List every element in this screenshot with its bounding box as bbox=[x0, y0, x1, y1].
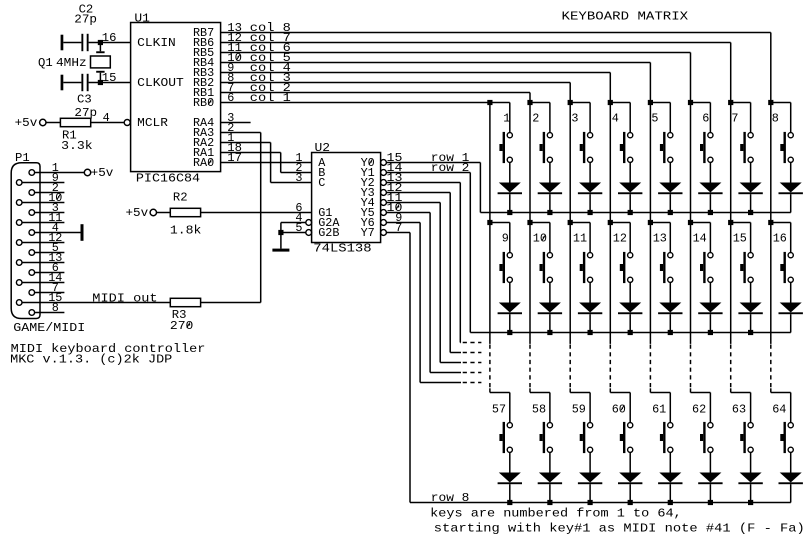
wire bbox=[201, 212, 312, 214]
net row 2 label bbox=[431, 161, 470, 175]
switch S61 key 61 bbox=[660, 422, 673, 453]
wire bbox=[629, 194, 631, 212]
wire bbox=[530, 102, 550, 104]
junction bbox=[507, 500, 512, 505]
wire bbox=[750, 314, 752, 332]
diode D63 bbox=[738, 473, 762, 485]
wire bbox=[691, 102, 711, 104]
svg-text:5: 5 bbox=[651, 112, 658, 126]
switch S63 key 63 bbox=[740, 422, 753, 453]
junction bbox=[728, 100, 733, 105]
wire bbox=[629, 452, 631, 472]
wire bbox=[589, 223, 591, 253]
svg-text:C: C bbox=[318, 176, 325, 190]
wire RA3 to MIDI bbox=[221, 133, 261, 303]
+5v terminal bbox=[126, 206, 157, 220]
wire bbox=[63, 42, 81, 44]
title KEYBOARD MATRIX bbox=[562, 10, 689, 24]
wire bbox=[570, 102, 590, 104]
junction bbox=[628, 210, 633, 215]
wire bbox=[89, 82, 131, 84]
svg-text:11: 11 bbox=[573, 232, 587, 246]
svg-text:58: 58 bbox=[532, 402, 546, 416]
svg-text:U2: U2 bbox=[315, 141, 331, 155]
wire bbox=[731, 392, 751, 394]
svg-text:MIDI out: MIDI out bbox=[92, 291, 157, 305]
wire bbox=[490, 102, 510, 104]
key 10 label bbox=[533, 232, 547, 246]
switch S62 key 62 bbox=[700, 422, 713, 453]
net row 4 wire bbox=[386, 193, 481, 353]
wire bbox=[509, 393, 511, 423]
wire bbox=[709, 223, 711, 253]
switch S4 key 4 bbox=[620, 132, 633, 163]
wire bbox=[629, 223, 631, 253]
key 64 label bbox=[772, 402, 786, 416]
wire bbox=[589, 194, 591, 212]
wire bbox=[549, 452, 551, 472]
switch S7 key 7 bbox=[740, 132, 753, 163]
svg-text:MKC v.1.3. (c)2k JDP: MKC v.1.3. (c)2k JDP bbox=[10, 352, 172, 366]
svg-text:1: 1 bbox=[503, 112, 510, 126]
wire bbox=[99, 43, 101, 52]
svg-text:12: 12 bbox=[613, 232, 627, 246]
wire bbox=[790, 484, 792, 502]
wire bbox=[669, 393, 671, 423]
wire bbox=[589, 393, 591, 423]
net col 5 wire bbox=[221, 63, 651, 103]
svg-text:4: 4 bbox=[612, 112, 619, 126]
wire bbox=[549, 223, 551, 253]
net row 8 label bbox=[431, 491, 470, 505]
wire bbox=[549, 194, 551, 212]
svg-text:61: 61 bbox=[652, 402, 666, 416]
diode D2 bbox=[538, 183, 562, 195]
wire RA4 stub bbox=[221, 122, 251, 124]
net col 3 continuation bbox=[569, 223, 571, 393]
wire bbox=[549, 162, 551, 182]
wire bbox=[549, 484, 551, 502]
junction bbox=[608, 220, 613, 225]
wire bbox=[281, 232, 306, 234]
svg-text:Y7: Y7 bbox=[361, 226, 375, 240]
junction bbox=[748, 500, 753, 505]
svg-text:270: 270 bbox=[170, 319, 194, 333]
junction bbox=[768, 220, 773, 225]
ground for C3 bbox=[61, 75, 64, 91]
diode D58 bbox=[538, 473, 562, 485]
wire bbox=[750, 162, 752, 182]
switch S9 key 9 bbox=[499, 252, 512, 283]
svg-text:starting with key#1 as MIDI: starting with key#1 as MIDI note #41 (F … bbox=[434, 521, 805, 535]
net col 2 vertical bbox=[529, 103, 531, 223]
diode D14 bbox=[698, 303, 722, 315]
wire bbox=[691, 222, 711, 224]
key 15 label bbox=[733, 232, 747, 246]
junction bbox=[98, 80, 103, 85]
wire bbox=[709, 103, 711, 133]
svg-text:59: 59 bbox=[572, 402, 586, 416]
resistor R2 bbox=[170, 190, 202, 237]
ground for C2 bbox=[61, 35, 64, 51]
svg-text:16: 16 bbox=[102, 31, 117, 45]
diode D15 bbox=[738, 303, 762, 315]
junction bbox=[547, 210, 552, 215]
net col 6 vertical bbox=[690, 103, 692, 223]
wire bbox=[750, 452, 752, 472]
svg-text:13: 13 bbox=[653, 232, 667, 246]
wire bbox=[549, 103, 551, 133]
wire bbox=[610, 392, 630, 394]
net col 3 label bbox=[250, 71, 291, 85]
switch S13 key 13 bbox=[660, 252, 673, 283]
+5v terminal bbox=[15, 116, 46, 130]
wire bbox=[570, 222, 590, 224]
net col 4 continuation bbox=[609, 223, 611, 393]
wire pin 13 stub bbox=[22, 262, 64, 264]
wire bbox=[771, 392, 791, 394]
wire bbox=[709, 393, 711, 423]
svg-text:Q1: Q1 bbox=[38, 56, 53, 70]
diode D6 bbox=[698, 183, 722, 195]
wire bbox=[650, 102, 670, 104]
svg-text:3: 3 bbox=[571, 112, 578, 126]
net col 6 continuation bbox=[690, 223, 692, 393]
switch S64 key 64 bbox=[780, 422, 793, 453]
switch S3 key 3 bbox=[580, 132, 593, 163]
caption line 1 bbox=[11, 342, 206, 356]
key 61 label bbox=[652, 402, 666, 416]
junction bbox=[728, 220, 733, 225]
capacitor C2 bbox=[74, 3, 97, 51]
net col 7 wire bbox=[221, 43, 731, 103]
svg-text:7: 7 bbox=[731, 112, 738, 126]
wire bbox=[530, 222, 550, 224]
wire pin 6 stub bbox=[35, 272, 65, 274]
wire bbox=[771, 102, 791, 104]
wire bbox=[610, 102, 630, 104]
wire bbox=[490, 392, 510, 394]
wire pin 4 to ground bbox=[35, 232, 81, 234]
svg-text:15: 15 bbox=[102, 71, 117, 85]
svg-text:3: 3 bbox=[295, 171, 302, 185]
junction bbox=[588, 210, 593, 215]
wire bbox=[629, 314, 631, 332]
diode D64 bbox=[779, 473, 803, 485]
wire bbox=[771, 222, 791, 224]
switch S15 key 15 bbox=[740, 252, 753, 283]
diode D12 bbox=[618, 303, 642, 315]
net col 5 vertical bbox=[649, 103, 651, 223]
svg-text:60: 60 bbox=[612, 402, 626, 416]
wire bbox=[589, 282, 591, 302]
wire bbox=[709, 452, 711, 472]
junction bbox=[708, 210, 713, 215]
wire bbox=[669, 162, 671, 182]
svg-text:keys are numbered from 1 to 64: keys are numbered from 1 to 64, bbox=[430, 506, 682, 520]
wire bbox=[629, 162, 631, 182]
switch S12 key 12 bbox=[620, 252, 633, 283]
junction bbox=[668, 210, 673, 215]
diode D13 bbox=[658, 303, 682, 315]
net col 1 wire bbox=[221, 102, 490, 104]
diode D7 bbox=[738, 183, 762, 195]
wire bbox=[509, 314, 511, 332]
svg-text:9: 9 bbox=[502, 232, 509, 246]
wire bbox=[731, 222, 751, 224]
wire bbox=[691, 392, 711, 394]
net row 7 wire bbox=[386, 223, 481, 383]
wire bbox=[490, 222, 510, 224]
connector P1 GAME/MIDI bbox=[11, 151, 85, 335]
svg-text:+5v: +5v bbox=[15, 116, 38, 130]
wire pin 15 MIDI out bbox=[22, 302, 170, 304]
diode D1 bbox=[498, 183, 522, 195]
svg-text:GAME/MIDI: GAME/MIDI bbox=[13, 321, 85, 335]
junction bbox=[527, 100, 532, 105]
capacitor C3 bbox=[74, 74, 97, 120]
junction bbox=[547, 330, 552, 335]
diode D61 bbox=[658, 473, 682, 485]
switch S1 key 1 bbox=[499, 132, 512, 163]
net col 3 vertical bbox=[569, 103, 571, 223]
svg-text:PIC16C84: PIC16C84 bbox=[136, 171, 200, 185]
svg-text:4MHz: 4MHz bbox=[56, 56, 87, 70]
wire bbox=[790, 282, 792, 302]
net col 8 vertical bbox=[770, 103, 772, 223]
wire pin 2 stub bbox=[35, 192, 65, 194]
wire bbox=[610, 222, 630, 224]
net col 1 vertical bbox=[489, 103, 491, 223]
key 5 label bbox=[651, 112, 658, 126]
junction bbox=[507, 210, 512, 215]
junction bbox=[507, 330, 512, 335]
key 8 label bbox=[772, 112, 779, 126]
key 58 label bbox=[532, 402, 546, 416]
svg-text:CLKOUT: CLKOUT bbox=[137, 76, 184, 90]
net col 6 label bbox=[250, 41, 291, 55]
wire bbox=[750, 103, 752, 133]
svg-text:6: 6 bbox=[702, 112, 709, 126]
junction bbox=[588, 500, 593, 505]
junction bbox=[628, 330, 633, 335]
wire bbox=[549, 282, 551, 302]
switch S5 key 5 bbox=[660, 132, 673, 163]
+5v terminal bbox=[84, 166, 113, 180]
junction bbox=[588, 330, 593, 335]
key 62 label bbox=[692, 402, 706, 416]
svg-text:MCLR: MCLR bbox=[137, 116, 168, 130]
wire bbox=[589, 162, 591, 182]
wire bbox=[156, 212, 170, 214]
svg-text:C3: C3 bbox=[77, 93, 92, 107]
wire bbox=[280, 223, 282, 233]
svg-text:G2B: G2B bbox=[318, 226, 339, 240]
zero slashes bbox=[57, 54, 624, 410]
svg-text:62: 62 bbox=[692, 402, 706, 416]
svg-text:2: 2 bbox=[532, 112, 539, 126]
svg-text:RB0: RB0 bbox=[193, 96, 214, 110]
net col 1 continuation bbox=[489, 223, 491, 393]
wire bbox=[509, 282, 511, 302]
net row 1 bus bbox=[480, 212, 790, 214]
wire bbox=[669, 223, 671, 253]
wire bbox=[530, 392, 550, 394]
key 9 label bbox=[502, 232, 509, 246]
svg-text:R2: R2 bbox=[173, 190, 188, 204]
svg-text:8: 8 bbox=[772, 112, 779, 126]
net col 7 continuation bbox=[730, 223, 732, 393]
svg-text:64: 64 bbox=[772, 402, 786, 416]
svg-text:col 1: col 1 bbox=[250, 91, 291, 105]
switch S58 key 58 bbox=[540, 422, 553, 453]
wire bbox=[669, 194, 671, 212]
wire bbox=[790, 103, 792, 133]
key 60 label bbox=[612, 402, 626, 416]
wire bbox=[509, 452, 511, 472]
net col 7 vertical bbox=[730, 103, 732, 223]
wire bbox=[750, 393, 752, 423]
net col 4 label bbox=[250, 61, 291, 75]
diode D62 bbox=[698, 473, 722, 485]
caption line 2 bbox=[10, 352, 172, 366]
wire bbox=[629, 393, 631, 423]
resistor R1 bbox=[60, 118, 92, 153]
svg-text:14: 14 bbox=[693, 232, 707, 246]
svg-text:+5v: +5v bbox=[126, 206, 149, 220]
svg-text:57: 57 bbox=[492, 402, 506, 416]
switch S11 key 11 bbox=[580, 252, 593, 283]
key 1 label bbox=[503, 112, 510, 126]
wire bbox=[709, 484, 711, 502]
wire bbox=[629, 484, 631, 502]
wire bbox=[281, 222, 306, 224]
net col 5 label bbox=[250, 51, 291, 65]
switch S2 key 2 bbox=[540, 132, 553, 163]
svg-text:P1: P1 bbox=[15, 151, 30, 165]
net row 2 bus bbox=[470, 332, 791, 334]
wire bbox=[201, 302, 261, 304]
wire bbox=[589, 103, 591, 133]
wire bbox=[589, 452, 591, 472]
key 13 label bbox=[653, 232, 667, 246]
net col 4 wire bbox=[221, 73, 611, 103]
wire bbox=[790, 314, 792, 332]
wire pin 1 to +5v bbox=[35, 172, 85, 174]
wire bbox=[669, 103, 671, 133]
junction bbox=[487, 220, 492, 225]
wire pin 8 stub bbox=[35, 312, 65, 314]
diode D4 bbox=[618, 183, 642, 195]
net col 8 wire bbox=[221, 33, 771, 103]
wire bbox=[91, 122, 125, 124]
net row 1 label bbox=[431, 151, 470, 165]
wire bbox=[750, 282, 752, 302]
junction bbox=[748, 210, 753, 215]
wire bbox=[750, 194, 752, 212]
wire bbox=[549, 314, 551, 332]
wire bbox=[46, 122, 61, 124]
wire pin 11 stub bbox=[22, 222, 64, 224]
ground bbox=[81, 224, 84, 241]
diode D8 bbox=[779, 183, 803, 195]
wire bbox=[509, 162, 511, 182]
wire bbox=[750, 223, 752, 253]
wire bbox=[709, 282, 711, 302]
switch S57 key 57 bbox=[499, 422, 512, 453]
wire bbox=[709, 162, 711, 182]
net col 3 wire bbox=[221, 83, 571, 103]
svg-text:15: 15 bbox=[733, 232, 747, 246]
net row 8 bus bbox=[410, 502, 791, 504]
wire bbox=[509, 223, 511, 253]
wire bbox=[509, 484, 511, 502]
wire bbox=[89, 42, 131, 44]
key 59 label bbox=[572, 402, 586, 416]
svg-text:+5v: +5v bbox=[91, 166, 114, 180]
net col 5 continuation bbox=[649, 223, 651, 393]
key 3 label bbox=[571, 112, 578, 126]
key 16 label bbox=[773, 232, 787, 246]
key 57 label bbox=[492, 402, 506, 416]
junction bbox=[278, 230, 283, 235]
wire bbox=[669, 452, 671, 472]
net col 6 wire bbox=[221, 53, 691, 103]
wire bbox=[650, 392, 670, 394]
wire bbox=[509, 103, 511, 133]
junction bbox=[648, 100, 653, 105]
net MIDI out label bbox=[92, 291, 157, 305]
net col 2 continuation bbox=[529, 223, 531, 393]
svg-text:27p: 27p bbox=[74, 13, 97, 27]
svg-text:RA0: RA0 bbox=[193, 156, 214, 170]
svg-text:row 8: row 8 bbox=[431, 491, 470, 505]
svg-text:63: 63 bbox=[732, 402, 746, 416]
net row 8 wire bbox=[386, 233, 410, 503]
net col 7 label bbox=[250, 31, 291, 45]
wire pin 10 stub bbox=[22, 202, 64, 204]
svg-text:74LS138: 74LS138 bbox=[313, 241, 371, 255]
wire pin 5 stub bbox=[35, 252, 65, 254]
diode D5 bbox=[658, 183, 682, 195]
svg-text:CLKIN: CLKIN bbox=[137, 36, 176, 50]
junction bbox=[748, 330, 753, 335]
diode D3 bbox=[578, 183, 602, 195]
net row 5 wire bbox=[386, 203, 481, 363]
junction bbox=[668, 500, 673, 505]
junction bbox=[688, 100, 693, 105]
wire bbox=[99, 73, 101, 83]
junction bbox=[768, 100, 773, 105]
svg-text:U1: U1 bbox=[134, 11, 150, 25]
wire RA2 to C bbox=[221, 143, 312, 183]
switch S59 key 59 bbox=[580, 422, 593, 453]
key 2 label bbox=[532, 112, 539, 126]
wire bbox=[790, 194, 792, 212]
note line 2 bbox=[434, 521, 805, 535]
wire RA1 to B bbox=[221, 153, 312, 173]
junction bbox=[547, 500, 552, 505]
wire bbox=[589, 314, 591, 332]
switch S60 key 60 bbox=[620, 422, 633, 453]
wire bbox=[570, 392, 590, 394]
junction bbox=[527, 220, 532, 225]
junction bbox=[487, 100, 492, 105]
junction bbox=[568, 220, 573, 225]
svg-text:4: 4 bbox=[103, 111, 110, 125]
key 6 label bbox=[702, 112, 709, 126]
diode D59 bbox=[578, 473, 602, 485]
